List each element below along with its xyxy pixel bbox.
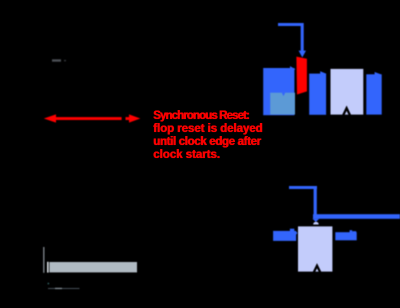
flip-flop FF6 (lavender, bottom) (298, 226, 332, 271)
wire: arrowhead on FF5 (375, 72, 381, 77)
clock notch of FF4 (343, 108, 350, 115)
node: clock bubble dome on flop top (313, 222, 319, 225)
flip-flop FF2: reset flop (red, skewed) (296, 57, 307, 95)
flip-flop FF4 (lavender with clock notch) (331, 69, 364, 115)
wire: signal arrowhead on FF1 (290, 66, 295, 72)
clock notch of FF6 (314, 266, 320, 273)
delay span: red double-headed arrow (44, 114, 141, 122)
flip-flop FF1 (blue) (263, 68, 294, 115)
node: reset-asserted region inside FF1 (light blue) (270, 93, 295, 115)
wire: arrowhead below rail (312, 219, 319, 222)
flip-flop FF3 (blue) (309, 74, 326, 115)
wire: arrowhead on FF3 (320, 71, 326, 76)
D input block arrow of FF6 (273, 229, 297, 241)
axis tick dot (48, 283, 50, 285)
wire: clock net elbow (bottom) (289, 186, 317, 215)
Q output block arrow of FF6 (335, 230, 356, 240)
wire: small arrowhead over light blue region (282, 93, 286, 97)
node: bright left cap of reset bar (47, 262, 49, 273)
wire: thick clock rail to right edge (313, 214, 400, 219)
faint clk label remnant (top waveform) (52, 59, 61, 61)
caption: synchronous reset note (red text) (153, 110, 249, 123)
reset signal bar (gray) (49, 262, 137, 272)
flip-flop FF5 (blue) (366, 74, 381, 114)
axis: faint horizontal baseline (48, 288, 80, 289)
axis: faint vertical line (bottom-left waveform) (43, 247, 44, 273)
wire: clock net arrow into reset flop (top) (278, 25, 306, 58)
